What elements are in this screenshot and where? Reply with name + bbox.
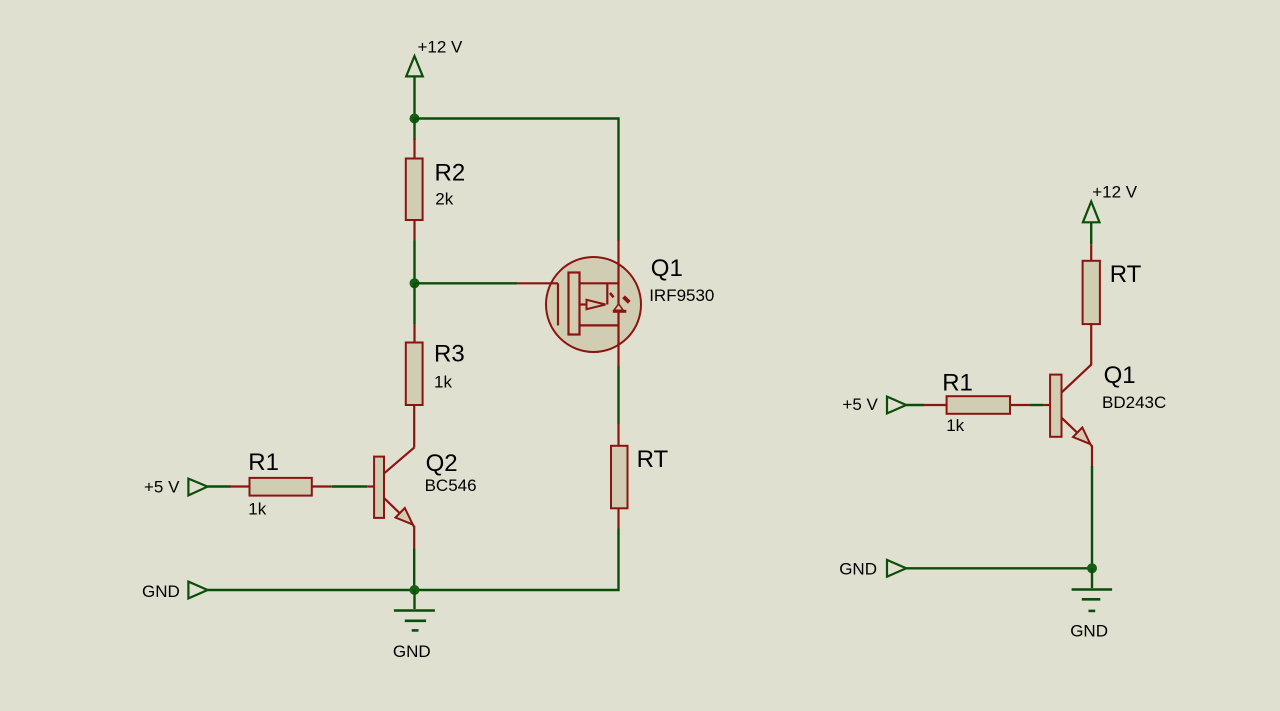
wire: R2 to node B <box>413 241 415 284</box>
svg-text:R1: R1 <box>942 369 973 396</box>
transistor Q1 (BD243C) <box>1043 364 1092 467</box>
terminal GND (right) <box>887 560 906 577</box>
svg-text:R3: R3 <box>434 341 465 368</box>
wire: +12V stem to node A <box>413 76 415 118</box>
node B (junction mid) <box>410 278 420 288</box>
wire: R1 to Q2 base <box>332 485 367 487</box>
svg-text:GND: GND <box>1070 622 1108 641</box>
svg-text:+12 V: +12 V <box>1092 182 1138 201</box>
resistor R3 <box>406 324 423 448</box>
terminal +5V (left) <box>188 479 207 496</box>
power terminal +12V (left) <box>406 56 423 76</box>
resistor R1 (right) <box>923 396 1030 414</box>
resistor RT (right) <box>1083 244 1100 364</box>
wire: GND rail (right) <box>906 567 1092 569</box>
svg-text:1k: 1k <box>434 372 452 391</box>
wire: node B to gate pin <box>415 282 518 284</box>
wire: node A down to R2 pin <box>413 119 415 141</box>
node C (ground junction left) <box>410 585 420 595</box>
resistor R2 <box>406 139 423 241</box>
ground symbol (right) <box>1072 568 1113 611</box>
resistor RT (left) <box>611 424 628 529</box>
resistor R1 (left) <box>230 478 332 496</box>
svg-text:IRF9530: IRF9530 <box>649 286 714 305</box>
terminal +5V (right) <box>887 397 906 414</box>
svg-text:+5 V: +5 V <box>842 395 878 414</box>
wire: +5V terminal to R1 (right) <box>906 404 924 406</box>
wire: MOSFET drain to RT <box>617 366 619 424</box>
mosfet Q1 (IRF9530) <box>517 241 641 367</box>
svg-text:Q1: Q1 <box>651 255 683 282</box>
svg-text:1k: 1k <box>248 499 266 518</box>
wire: node B down to R3 <box>413 283 415 324</box>
wire: Q1 emitter down (right) <box>1091 466 1093 568</box>
svg-text:Q1: Q1 <box>1104 362 1136 389</box>
wire: GND rail (left circuit) <box>208 529 619 591</box>
wire: Q2 emitter down <box>413 549 415 591</box>
node D (ground junction right) <box>1087 563 1097 573</box>
svg-text:BD243C: BD243C <box>1102 393 1166 412</box>
svg-text:GND: GND <box>393 642 431 661</box>
svg-text:BC546: BC546 <box>425 476 477 495</box>
wire: +5V terminal to R1 <box>208 485 231 487</box>
svg-text:+5 V: +5 V <box>144 478 180 497</box>
svg-text:+12 V: +12 V <box>418 37 464 56</box>
svg-text:RT: RT <box>637 446 669 473</box>
wire: node A to top-right corner <box>415 119 619 241</box>
svg-text:R1: R1 <box>248 449 279 476</box>
power terminal +12V (right) <box>1083 202 1100 223</box>
wire: +12V stem to RT (right) <box>1090 222 1092 244</box>
svg-text:GND: GND <box>142 582 180 601</box>
svg-text:GND: GND <box>839 560 877 579</box>
svg-text:R2: R2 <box>435 159 466 186</box>
transistor Q2 (BC546) <box>367 448 414 549</box>
ground symbol (left) <box>394 590 435 630</box>
wire: R1 to Q1 base (right) <box>1030 404 1043 406</box>
terminal GND (left) <box>188 582 207 599</box>
svg-text:RT: RT <box>1110 261 1142 288</box>
node A (junction top) <box>410 114 420 124</box>
svg-text:2k: 2k <box>435 189 453 208</box>
svg-text:Q2: Q2 <box>426 450 458 477</box>
svg-text:1k: 1k <box>946 416 964 435</box>
